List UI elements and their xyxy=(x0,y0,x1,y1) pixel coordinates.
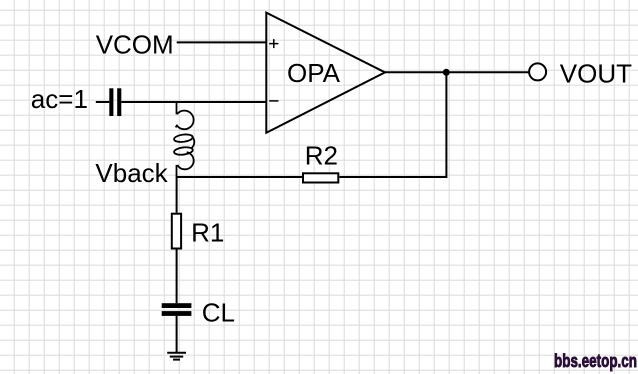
svg-text:VCOM: VCOM xyxy=(96,29,174,59)
svg-text:R1: R1 xyxy=(191,218,224,248)
svg-text:R2: R2 xyxy=(305,140,338,170)
svg-text:VOUT: VOUT xyxy=(560,59,632,89)
svg-text:CL: CL xyxy=(202,297,235,327)
svg-text:ac=1: ac=1 xyxy=(31,84,88,114)
svg-text:OPA: OPA xyxy=(287,58,341,88)
svg-text:bbs.eetop.cn: bbs.eetop.cn xyxy=(554,351,637,371)
svg-text:Vback: Vback xyxy=(95,158,168,188)
